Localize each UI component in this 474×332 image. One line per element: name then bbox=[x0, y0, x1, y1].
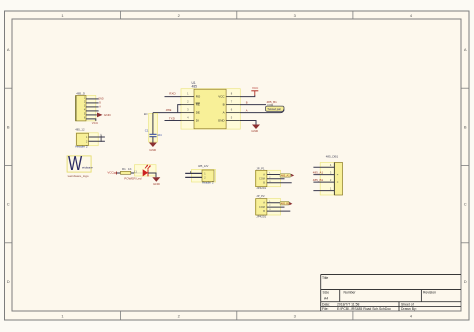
ground (LED) bbox=[152, 177, 160, 186]
svg-text:JP4201: JP4201 bbox=[256, 186, 266, 190]
svg-text:485_DB1: 485_DB1 bbox=[326, 155, 339, 159]
svg-text:B: B bbox=[7, 124, 10, 129]
svg-text:C1: C1 bbox=[145, 129, 149, 133]
svg-text:JP_P1: JP_P1 bbox=[256, 166, 265, 170]
svg-text:COM: COM bbox=[259, 206, 265, 209]
svg-text:GND: GND bbox=[104, 113, 112, 117]
svg-text:104: 104 bbox=[157, 133, 162, 137]
svg-text:2018/7/7 11:58: 2018/7/7 11:58 bbox=[337, 302, 359, 306]
svg-text:A: A bbox=[7, 47, 10, 52]
svg-text:A: A bbox=[246, 108, 248, 112]
svg-text:GND: GND bbox=[251, 129, 259, 133]
wire R1 to LED bbox=[131, 172, 143, 174]
svg-text:Header 2: Header 2 bbox=[202, 181, 214, 185]
svg-text:POWER Led: POWER Led bbox=[124, 176, 142, 180]
label box 485_B1 (JP2) bbox=[280, 201, 290, 205]
ground (JP2, sideways) bbox=[289, 202, 292, 205]
svg-text:485_B1: 485_B1 bbox=[281, 202, 290, 205]
svg-text:RO: RO bbox=[196, 95, 201, 99]
svg-text:DI: DI bbox=[196, 119, 199, 123]
title block bbox=[321, 275, 461, 312]
svg-text:Twisted pair: Twisted pair bbox=[267, 107, 281, 111]
svg-text:B: B bbox=[223, 103, 225, 107]
svg-text:VCC: VCC bbox=[107, 171, 114, 175]
svg-text:eirdware: eirdware bbox=[82, 166, 93, 170]
svg-text:GND: GND bbox=[98, 97, 104, 100]
LED L1 bbox=[134, 165, 156, 177]
svg-text:File:: File: bbox=[322, 307, 328, 311]
svg-text:A4: A4 bbox=[324, 296, 328, 300]
connector J3 485_12V (mirrored Header 2) bbox=[185, 164, 215, 184]
svg-text:485_12V: 485_12V bbox=[198, 164, 209, 168]
svg-text:Date:: Date: bbox=[322, 302, 330, 306]
svg-text:1K: 1K bbox=[128, 167, 132, 171]
jumper JP2 bbox=[255, 194, 290, 218]
svg-text:RXD: RXD bbox=[169, 92, 176, 96]
svg-text:weirdware_logo: weirdware_logo bbox=[68, 174, 89, 178]
svg-text:GND: GND bbox=[149, 148, 157, 152]
svg-text:GND: GND bbox=[153, 182, 161, 186]
svg-text:EN: EN bbox=[144, 113, 148, 116]
svg-text:485_12: 485_12 bbox=[75, 128, 85, 132]
connector 485_DB1 bbox=[313, 155, 342, 195]
ground (C1) bbox=[149, 143, 157, 153]
svg-text:TXD: TXD bbox=[169, 117, 176, 121]
svg-text:VCC: VCC bbox=[92, 121, 99, 125]
wire U1 pin8 to VCC bbox=[240, 95, 255, 96]
logo W weirdware_logo bbox=[67, 153, 93, 178]
capacitor C1 bbox=[145, 129, 162, 138]
svg-text:Header 2: Header 2 bbox=[75, 145, 88, 149]
svg-text:C: C bbox=[464, 202, 467, 207]
wire 485_EN (U1 pin3) bbox=[153, 112, 181, 114]
svg-text:Number: Number bbox=[344, 291, 357, 295]
svg-text:485_D: 485_D bbox=[76, 92, 86, 96]
resistor R1 1K bbox=[121, 167, 132, 174]
connector J2 485_12 bbox=[75, 128, 105, 149]
svg-text:Size: Size bbox=[323, 291, 330, 295]
svg-text:A: A bbox=[223, 111, 225, 115]
ground (JP1, sideways) bbox=[291, 174, 294, 177]
wire LED to GND bbox=[148, 173, 156, 177]
power VCC (LED circuit) bbox=[107, 171, 116, 175]
power VCC (U1 pin8) bbox=[251, 86, 259, 96]
svg-text:485_A1: 485_A1 bbox=[313, 171, 324, 175]
svg-text:485_A1: 485_A1 bbox=[281, 175, 290, 178]
svg-text:VCC: VCC bbox=[218, 95, 225, 99]
connector J1 485_D bbox=[75, 92, 103, 121]
svg-text:R1: R1 bbox=[122, 167, 126, 171]
label box twisted pair bbox=[266, 106, 285, 111]
svg-text:D: D bbox=[7, 279, 10, 284]
svg-text:485E: 485E bbox=[166, 109, 172, 112]
svg-text:B: B bbox=[464, 124, 467, 129]
svg-text:485_B1: 485_B1 bbox=[313, 178, 324, 182]
wire C1 to GND bbox=[152, 137, 154, 143]
svg-text:W: W bbox=[68, 153, 82, 175]
label box 485_A1 (JP1) bbox=[280, 174, 291, 178]
wire RE to DE link (U1 pin2) bbox=[178, 105, 181, 113]
IC U1 485 bbox=[181, 81, 240, 129]
svg-text:Sheet of: Sheet of bbox=[401, 302, 414, 306]
svg-text:JP4201: JP4201 bbox=[256, 215, 266, 219]
svg-text:Title: Title bbox=[322, 276, 328, 280]
wire U1 pin5 to GND bbox=[240, 121, 256, 125]
wire RXD (U1 pin1) bbox=[165, 96, 182, 98]
ground (sideways) on J1 pin5 bbox=[97, 113, 111, 118]
svg-text:A: A bbox=[464, 47, 467, 52]
svg-text:B: B bbox=[246, 101, 248, 105]
svg-text:C: C bbox=[7, 202, 10, 207]
svg-text:COM: COM bbox=[259, 178, 265, 181]
svg-text:GND: GND bbox=[218, 119, 226, 123]
jumper JP1 bbox=[255, 166, 291, 190]
svg-text:DE: DE bbox=[196, 111, 200, 115]
wire VCC to R1 bbox=[117, 172, 121, 174]
svg-text:VCC: VCC bbox=[252, 86, 259, 90]
wire TXD (U1 pin4) bbox=[165, 120, 182, 122]
svg-text:Revision: Revision bbox=[423, 291, 436, 295]
wire U1 pin6 (A) bbox=[240, 110, 284, 113]
svg-text:Drawn By:: Drawn By: bbox=[401, 307, 417, 311]
svg-text:485: 485 bbox=[192, 84, 198, 88]
svg-text:JP_P2: JP_P2 bbox=[256, 194, 265, 198]
wire to capacitor C1 bbox=[149, 113, 158, 142]
wire U1 pin7 (B) bbox=[240, 104, 266, 106]
ground (U1 pin5) bbox=[251, 125, 260, 133]
svg-text:D: D bbox=[464, 279, 467, 284]
svg-text:E:\PCB\..\RS485 Road Sch.SchDo: E:\PCB\..\RS485 Road Sch.SchDoc bbox=[337, 307, 391, 311]
